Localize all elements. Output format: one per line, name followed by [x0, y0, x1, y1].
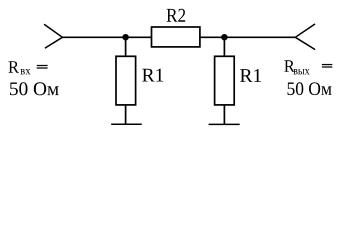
wire: node B down to R1 right — [223, 37, 225, 56]
label Rвых (output impedance) — [284, 60, 295, 72]
wire: node A down to R1 left — [125, 37, 127, 56]
node A junction dot — [122, 34, 129, 41]
wire: R1 left bottom to ground — [125, 105, 127, 124]
input connector (left port) — [45, 25, 63, 48]
equals sign (left) — [37, 65, 48, 67]
ground (left) — [111, 123, 142, 125]
label R1 (left) — [142, 69, 163, 82]
resistor R1 (left shunt) — [116, 56, 136, 105]
label 50 Ом (right) — [288, 82, 332, 95]
label R2 — [167, 9, 186, 22]
node B junction dot — [221, 34, 228, 41]
label R1 (right) — [240, 69, 261, 82]
wire: R2 to right port via node B — [200, 36, 295, 38]
output connector (right port) — [295, 24, 314, 49]
label Rвх (input impedance) — [9, 61, 20, 72]
resistor R2 — [152, 27, 200, 47]
wire: R1 right bottom to ground — [223, 105, 225, 125]
ground (right) — [209, 123, 240, 125]
wire: left port to R2 via node A — [62, 36, 151, 38]
resistor R1 (right shunt) — [215, 56, 235, 105]
label 50 Ом (left) — [10, 82, 59, 95]
equals sign (right) — [322, 64, 332, 66]
